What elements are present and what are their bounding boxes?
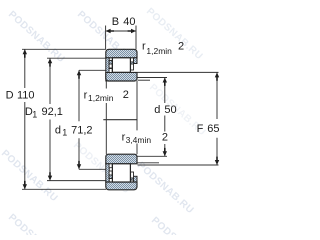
svg-text:d: d (154, 104, 160, 116)
svg-text:2: 2 (178, 40, 184, 52)
svg-text:PODSNAB.RU: PODSNAB.RU (6, 9, 67, 65)
svg-text:110: 110 (17, 90, 35, 102)
svg-text:50: 50 (164, 104, 176, 116)
svg-text:1,2min: 1,2min (88, 93, 114, 103)
svg-text:65: 65 (207, 123, 219, 135)
svg-text:71,2: 71,2 (71, 125, 92, 137)
svg-text:r: r (84, 89, 88, 101)
svg-text:3,4min: 3,4min (126, 135, 152, 145)
svg-text:1: 1 (32, 109, 37, 119)
svg-text:PODSNAB.RU: PODSNAB.RU (149, 215, 210, 235)
svg-text:D: D (6, 90, 14, 102)
svg-text:92,1: 92,1 (42, 106, 63, 118)
svg-text:r: r (142, 40, 146, 52)
svg-text:PODSNAB.RU: PODSNAB.RU (135, 160, 196, 216)
svg-text:d: d (55, 125, 61, 137)
svg-text:B: B (112, 16, 119, 28)
svg-text:PODSNAB.RU: PODSNAB.RU (6, 212, 67, 235)
svg-text:1,2min: 1,2min (146, 46, 172, 56)
svg-text:1: 1 (62, 128, 67, 138)
svg-text:2: 2 (123, 89, 129, 101)
svg-text:2: 2 (162, 131, 168, 143)
svg-text:F: F (197, 123, 204, 135)
svg-text:40: 40 (123, 16, 135, 28)
